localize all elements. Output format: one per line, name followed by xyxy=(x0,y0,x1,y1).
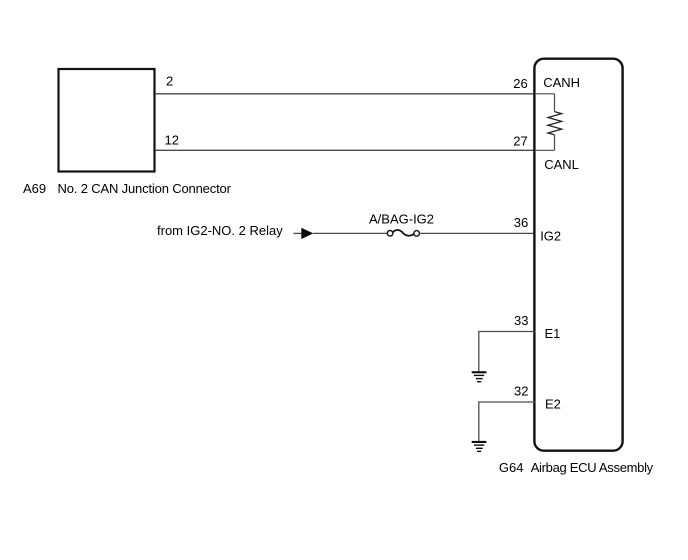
fuse A/BAG-IG2 left terminal circle xyxy=(387,231,393,237)
wire CANL: connector pin 12 to ECU pin 27 xyxy=(156,149,536,151)
svg-text:26: 26 xyxy=(513,76,527,91)
wire resistor bottom stub (horizontal to ECU edge) xyxy=(535,149,554,151)
svg-text:from IG2-NO. 2 Relay: from IG2-NO. 2 Relay xyxy=(157,223,283,238)
svg-text:A69: A69 xyxy=(23,181,46,196)
svg-text:E2: E2 xyxy=(545,396,561,411)
wire resistor top stub (horizontal from ECU edge) xyxy=(535,93,554,95)
svg-text:A/BAG-IG2: A/BAG-IG2 xyxy=(369,212,434,227)
arrow head (signal direction) xyxy=(301,228,313,239)
fuse A/BAG-IG2 right terminal circle xyxy=(414,231,420,237)
svg-text:33: 33 xyxy=(514,313,528,328)
wire IG2: fuse to ECU pin 36 xyxy=(419,232,535,234)
svg-text:CANL: CANL xyxy=(544,157,579,172)
wire stub before arrow xyxy=(294,232,303,234)
ground symbol G2 xyxy=(472,441,487,452)
wire resistor bottom lead (vertical) xyxy=(554,135,556,151)
ECU G64 box xyxy=(534,59,622,451)
svg-text:CANH: CANH xyxy=(543,75,580,90)
svg-text:G64: G64 xyxy=(499,460,524,475)
wire CANH: connector pin 2 to ECU pin 26 xyxy=(156,93,536,95)
wire E2: ECU pin 32 to ground xyxy=(478,401,535,403)
svg-text:2: 2 xyxy=(166,74,173,89)
ground symbol G1 xyxy=(472,371,487,382)
fuse A/BAG-IG2 element curve xyxy=(393,230,414,236)
wire E1: ECU pin 33 to ground xyxy=(478,331,535,333)
connector A69 box xyxy=(59,69,155,172)
wire IG2: arrow to fuse xyxy=(313,232,387,234)
svg-text:E1: E1 xyxy=(545,326,561,341)
svg-text:36: 36 xyxy=(514,215,528,230)
svg-text:Airbag ECU Assembly: Airbag ECU Assembly xyxy=(531,460,654,475)
wire E2 ground drop (vertical) xyxy=(478,402,480,441)
svg-text:32: 32 xyxy=(514,384,528,399)
svg-text:27: 27 xyxy=(513,133,527,148)
svg-text:12: 12 xyxy=(165,133,179,148)
svg-text:IG2: IG2 xyxy=(540,229,561,244)
wire resistor top lead (vertical) xyxy=(554,94,556,112)
svg-text:No. 2 CAN Junction Connector: No. 2 CAN Junction Connector xyxy=(58,181,232,196)
wire E1 ground drop (vertical) xyxy=(478,332,480,372)
resistor (CAN terminating resistor) xyxy=(548,112,562,135)
